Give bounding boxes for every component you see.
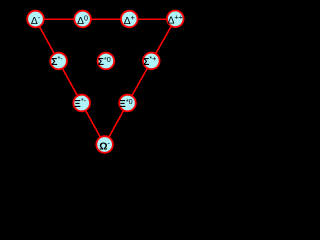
node Delta0 xyxy=(74,11,91,28)
wire Delta0 to Delta+ xyxy=(83,18,130,20)
node Sigma*- xyxy=(50,53,67,70)
wire Sigma*+ to Xi*0 xyxy=(128,61,152,103)
node Sigma*0 xyxy=(98,53,115,70)
wire Delta- to Delta0 xyxy=(36,18,83,20)
wire Delta++ to Sigma*+ xyxy=(151,19,175,61)
node Xi*0 xyxy=(119,95,136,112)
node Delta- xyxy=(27,11,44,28)
node Xi*- xyxy=(73,95,90,112)
wire Xi*- to Omega- xyxy=(82,103,105,144)
wire Delta- to Sigma*- xyxy=(36,19,59,61)
node Delta++ xyxy=(167,10,184,27)
node Delta+ xyxy=(121,11,138,28)
wire Delta+ to Delta++ xyxy=(129,18,175,20)
wire Xi*0 to Omega- xyxy=(105,103,128,144)
wire Sigma*- to Xi*- xyxy=(59,61,82,103)
node Sigma*+ xyxy=(143,53,160,70)
node Omega- xyxy=(96,136,113,153)
